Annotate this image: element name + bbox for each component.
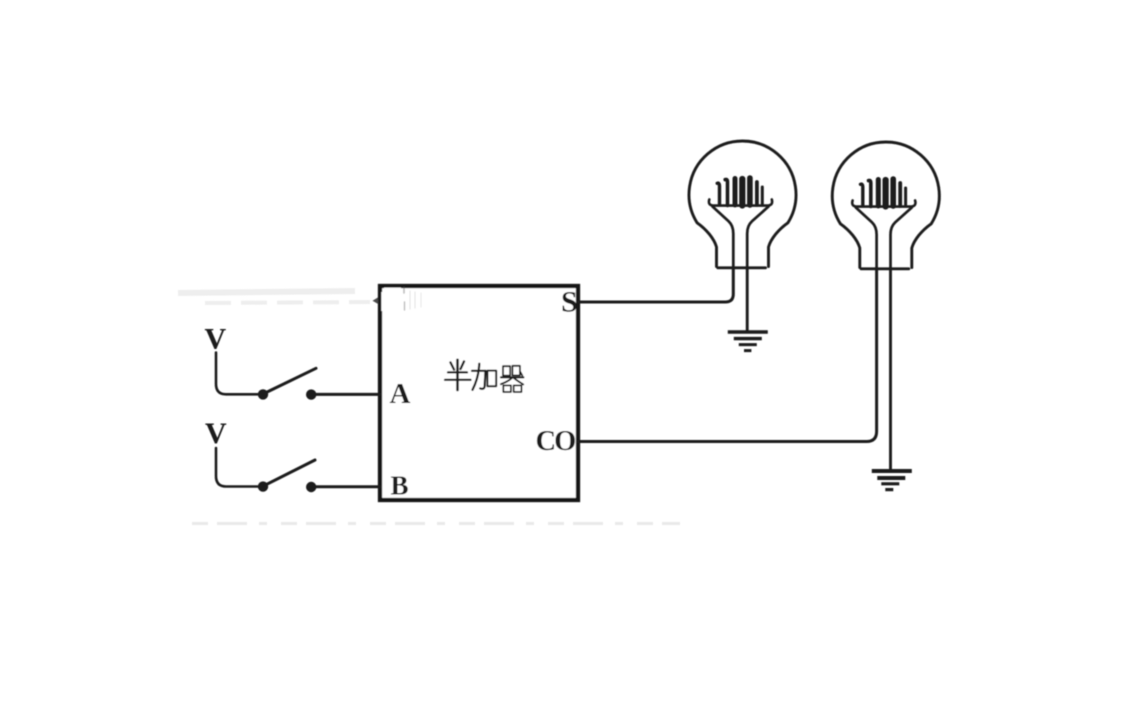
- switch S2 pole contact dot: [258, 481, 268, 491]
- lamp DS2 (bulb on CO output): [832, 142, 939, 269]
- lamp DS2 base bottom line: [861, 267, 909, 270]
- lamp DS2 glass envelope: [832, 142, 939, 268]
- svg-text:B: B: [391, 471, 409, 501]
- scan artifact: dotted streak under box: [192, 522, 680, 525]
- scan artifact: white erosion on box border near top-left corner: [381, 288, 401, 311]
- switch S1 blade (open arm): [263, 368, 316, 394]
- value label 器 (hanzi "device"): [501, 366, 524, 392]
- svg-text:V: V: [205, 417, 227, 450]
- switch S1 throw contact dot: [306, 389, 316, 399]
- wire: lamp DS1 right lead to ground: [746, 267, 749, 331]
- wire: switch S1 to input A: [316, 393, 380, 396]
- value label 半 (hanzi "half"): [445, 360, 471, 390]
- half-adder block U1 (半加器): [380, 286, 578, 500]
- wire: V supply down-lead to switch S2 pole: [216, 448, 258, 487]
- lamp DS2 filament coil strokes: [861, 184, 863, 205]
- svg-text:A: A: [390, 378, 411, 410]
- wire: CO output to lamp DS2 left lead: [578, 268, 877, 442]
- switch S2 throw contact dot: [306, 482, 316, 492]
- lamp DS1 glass envelope: [689, 141, 796, 267]
- value label 加 (hanzi "add"): [472, 364, 496, 390]
- ground symbol (under lamp DS1): [728, 332, 768, 351]
- svg-text:S: S: [561, 286, 578, 319]
- svg-text:CO: CO: [536, 426, 576, 457]
- switch S2 blade (open arm): [263, 460, 315, 486]
- wire: switch S2 to input B: [316, 485, 380, 488]
- lamp DS1 stem right line (funnel): [747, 207, 768, 268]
- lamp DS2 filament support arm: [852, 201, 915, 207]
- lamp DS2 stem left line (funnel): [856, 208, 877, 269]
- wire: lamp DS2 right lead to ground: [889, 268, 892, 469]
- wire: S output to lamp DS1 left lead: [578, 267, 733, 302]
- scan artifact: blob on box left edge: [373, 297, 379, 304]
- svg-text:V: V: [205, 323, 227, 356]
- lamp DS1 stem left line (funnel): [713, 207, 734, 268]
- ground symbol (under lamp DS2): [872, 471, 912, 490]
- lamp DS1 filament coil strokes: [717, 183, 719, 204]
- wire: V supply down-lead to switch S1 pole: [216, 353, 258, 395]
- lamp DS1 base bottom line: [718, 266, 766, 269]
- scan artifact: light streaks left of box: [178, 291, 370, 303]
- lamp DS2 stem right line (funnel): [891, 208, 912, 269]
- switch S1 pole contact dot: [258, 389, 268, 399]
- scan artifact: faint dashes inside box corner: [403, 288, 406, 311]
- lamp DS1 filament support arm: [709, 200, 772, 206]
- lamp DS1 (bulb on S output): [689, 141, 796, 268]
